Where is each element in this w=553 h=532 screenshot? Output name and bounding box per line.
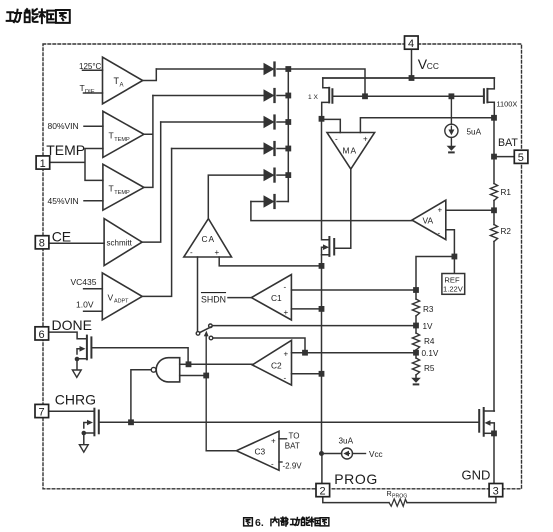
pin 3 box — [489, 484, 503, 498]
svg-text:T: T — [109, 131, 114, 141]
svg-text:8: 8 — [39, 238, 45, 250]
svg-text:PROG: PROG — [392, 494, 407, 500]
node 0.1V tap junction — [413, 350, 419, 356]
wire C1- input to REF node — [291, 289, 416, 291]
wire CA- input down to switch — [197, 257, 199, 331]
wire TTEMP1 input 80%VIN — [84, 125, 103, 127]
current source I1 5uA — [445, 96, 458, 145]
transistor Q2 1100X — [484, 78, 494, 115]
node mirror drain-gate junction — [362, 93, 368, 99]
svg-text:C3: C3 — [255, 447, 266, 457]
pin 6 box — [35, 327, 49, 341]
node NAND in2 junction — [203, 373, 209, 379]
wire CA output to diode row5 — [208, 175, 263, 219]
svg-text:BAT: BAT — [498, 137, 518, 149]
op-amp MA — [327, 133, 375, 170]
wire VA- input to REF node — [446, 230, 455, 254]
pin 1 box — [36, 156, 50, 170]
schmitt trigger — [104, 219, 142, 266]
diode D3 — [161, 121, 264, 123]
resistor R2 — [490, 225, 497, 242]
wire NAND output to gate bus — [131, 370, 151, 420]
svg-text:VA: VA — [423, 216, 434, 226]
svg-text:-: - — [284, 283, 287, 292]
svg-text:T: T — [80, 83, 85, 93]
wire REF node to R3 top — [416, 257, 454, 291]
wire C3- stub — [279, 461, 282, 463]
svg-text:CE: CE — [52, 229, 71, 245]
svg-text:DONE: DONE — [52, 317, 92, 333]
wire C2 output to NAND in1 — [189, 363, 253, 365]
wire switch contact1 to 1V tap — [212, 325, 416, 327]
svg-text:-: - — [271, 460, 274, 469]
svg-text:R5: R5 — [424, 364, 435, 373]
svg-text:SHDN: SHDN — [201, 295, 226, 305]
node Q2 drain junction — [491, 115, 497, 121]
svg-text:-: - — [284, 374, 287, 383]
wire PROG to pin2 — [321, 454, 323, 484]
wire PROG sense line — [321, 266, 323, 454]
wire mirror gate line — [365, 95, 484, 97]
wire VA+ input to R1R2 tap — [446, 209, 494, 211]
title 功能框图 — [7, 9, 70, 23]
node REF node junction — [452, 254, 458, 260]
wire M4 source to GND pin — [493, 433, 495, 483]
node PROG dot — [319, 451, 324, 456]
wire MA inverting input from Q1 gate node — [322, 119, 341, 132]
svg-text:schmitt: schmitt — [107, 239, 133, 248]
wire BAT rail down — [493, 118, 495, 184]
wire VCC rail — [323, 77, 495, 79]
svg-text:7: 7 — [39, 406, 45, 418]
wire RPROG to pin3 — [407, 497, 496, 502]
node CA+ / PROG junction — [319, 263, 325, 269]
svg-text:+: + — [284, 308, 289, 317]
svg-text:+: + — [438, 206, 443, 215]
op-amp VA — [412, 200, 446, 239]
diode D4 — [172, 148, 264, 150]
svg-text:2: 2 — [320, 486, 326, 498]
svg-text:1.22V: 1.22V — [443, 285, 464, 294]
svg-text:CHRG: CHRG — [55, 392, 96, 408]
transistor M1 (sense FET) — [322, 119, 335, 263]
node NAND in1 junction — [186, 361, 192, 367]
svg-text:R3: R3 — [423, 305, 434, 314]
resistor R5 — [415, 353, 417, 358]
svg-text:4: 4 — [408, 38, 414, 50]
node BAT junction — [491, 154, 497, 160]
svg-text:TEMP: TEMP — [46, 142, 85, 158]
pin 7 box — [35, 404, 49, 418]
svg-text:TEMP: TEMP — [114, 190, 130, 196]
wire VA output hook to D6 — [251, 202, 412, 221]
svg-text:R2: R2 — [501, 227, 512, 236]
current source I2 3uA — [322, 448, 366, 459]
resistor R3 — [415, 290, 417, 299]
svg-text:+: + — [284, 350, 289, 359]
dashed border of IC — [43, 44, 522, 489]
wire pin2 to RPROG — [323, 497, 389, 502]
svg-text:C2: C2 — [271, 361, 282, 371]
wire TTEMP2 input 45%VIN — [84, 200, 103, 202]
svg-text:125°C: 125°C — [79, 62, 102, 71]
wire TA input 125C — [83, 69, 103, 71]
wire VADPT input VC435 — [84, 288, 103, 290]
wire switch contact2 to C2+ node — [213, 338, 305, 350]
comparator TA — [103, 57, 143, 104]
svg-text:VC435: VC435 — [71, 277, 97, 287]
pin 5 box — [514, 150, 528, 164]
gate U1 NAND — [156, 358, 179, 382]
node C2- / PROG junction — [319, 371, 325, 377]
svg-text:DIE: DIE — [85, 89, 95, 95]
svg-text:REF: REF — [444, 275, 460, 284]
wire VCC pin lead — [411, 49, 413, 78]
wire CE pin to schmitt — [50, 242, 104, 244]
svg-text:-: - — [335, 135, 338, 144]
block REF 1.22V — [453, 260, 455, 274]
svg-text:1100X: 1100X — [497, 100, 518, 109]
wire DONE pin to M2 drain — [50, 332, 87, 339]
comparator C2 — [252, 340, 291, 385]
svg-text:BAT: BAT — [285, 441, 300, 450]
node R3 top junction — [413, 287, 419, 293]
diode D2 — [153, 95, 264, 97]
svg-text:-: - — [190, 248, 193, 257]
transistor M3 (CHRG open-drain) — [82, 409, 129, 445]
svg-text:5: 5 — [518, 152, 524, 164]
ground below 5uA — [447, 146, 457, 153]
svg-text:-: - — [438, 229, 441, 238]
pin 4 box — [405, 36, 419, 50]
svg-text:R1: R1 — [501, 188, 512, 197]
node C2+ junction — [302, 350, 308, 356]
svg-text:45%VIN: 45%VIN — [48, 196, 79, 206]
wire C3+ stub TO BAT — [279, 438, 287, 440]
svg-text:CA: CA — [202, 234, 216, 244]
svg-text:+: + — [215, 248, 220, 257]
diode D6 — [251, 201, 264, 203]
node Q1 gate junction — [319, 116, 325, 122]
wire schmitt output to D3 row — [142, 122, 161, 242]
svg-text:3: 3 — [493, 486, 499, 498]
svg-text:TO: TO — [289, 431, 300, 440]
ground below M2 — [72, 370, 81, 377]
node 1V tap junction — [413, 323, 419, 329]
wire C3 output up to switch — [206, 450, 236, 452]
svg-text:ADPT: ADPT — [114, 299, 129, 305]
svg-text:R4: R4 — [424, 337, 435, 346]
svg-text:MA: MA — [343, 145, 358, 155]
svg-text:+: + — [271, 437, 276, 446]
switch S1 — [196, 324, 213, 451]
resistor RPROG — [389, 499, 407, 506]
svg-text:V: V — [108, 293, 114, 303]
ground below M3 — [79, 445, 88, 452]
svg-text:6: 6 — [39, 329, 45, 341]
svg-text:-2.9V: -2.9V — [283, 461, 303, 470]
wire C1+ input to PROG line — [291, 308, 318, 310]
wire C2+ input to 0.1V tap — [292, 352, 417, 354]
wire CA+ input to PROG line — [219, 257, 318, 266]
transistor M2 (DONE open-drain) — [75, 336, 188, 370]
caption 图6. 内部功能框图 — [244, 517, 329, 526]
node M4 source junction — [491, 431, 497, 437]
comparator TTEMP2 — [103, 164, 144, 210]
comparator C3 — [236, 431, 279, 470]
svg-text:0.1V: 0.1V — [422, 349, 439, 358]
wire TA output to D1 row — [143, 69, 157, 81]
wire CHRG pin to M3 drain — [50, 410, 94, 412]
wire VADPT output to D4 row — [142, 149, 171, 297]
svg-text:1 X: 1 X — [308, 94, 318, 101]
wire C2- input to PROG line — [292, 373, 319, 375]
svg-text:T: T — [109, 184, 114, 194]
svg-text:CC: CC — [427, 61, 439, 71]
wire NAND input1 — [180, 363, 189, 365]
transistor M4 (power FET) — [479, 408, 494, 436]
diode D1 — [156, 68, 263, 70]
wire VADPT input 1.0V — [84, 310, 103, 312]
wire TEMP pin bracket — [50, 149, 103, 181]
svg-text:R: R — [387, 489, 392, 498]
svg-text:3uA: 3uA — [339, 437, 354, 446]
node R1R2 tap junction — [491, 207, 497, 213]
wire D1 row to mirror node — [291, 69, 365, 94]
svg-text:1V: 1V — [423, 322, 434, 331]
node gate-line / 5uA junction — [449, 93, 455, 99]
node NAND out junction — [128, 419, 134, 425]
wire diode cathode bus — [287, 69, 289, 202]
svg-text:1.0V: 1.0V — [76, 300, 94, 310]
node C1+ / PROG junction — [319, 306, 325, 312]
comparator VADPT — [102, 273, 142, 320]
node VCC junction — [409, 75, 415, 81]
wire MA non-inverting input to Q2 drain — [360, 118, 494, 133]
wire TA input TDIE — [84, 92, 103, 94]
pin 2 box — [316, 484, 330, 498]
wire NAND input2 — [180, 375, 207, 377]
wire C1 output SHDN — [228, 297, 251, 299]
svg-text:80%VIN: 80%VIN — [48, 121, 79, 131]
svg-text:C1: C1 — [271, 293, 282, 303]
svg-text:A: A — [120, 83, 124, 89]
svg-text:6.: 6. — [255, 517, 264, 529]
svg-text:PROG: PROG — [334, 471, 378, 487]
svg-text:TEMP: TEMP — [114, 137, 130, 143]
svg-text:5uA: 5uA — [467, 128, 482, 137]
ground below R5 — [411, 378, 421, 385]
svg-text:1: 1 — [40, 158, 46, 170]
resistor R4 — [415, 326, 417, 334]
wire BAT to pin5 — [494, 156, 514, 158]
diode D5 — [264, 169, 275, 182]
pin 8 box — [35, 236, 49, 250]
wire TTEMP outputs merge to D2 row — [144, 96, 153, 188]
comparator TTEMP1 — [103, 111, 144, 157]
resistor R1 — [490, 184, 497, 201]
comparator C1 — [251, 275, 291, 321]
comparator CA — [184, 219, 232, 257]
svg-text:Vcc: Vcc — [369, 450, 383, 459]
wire MA output down to M1 gate — [335, 169, 351, 248]
svg-text:GND: GND — [462, 468, 491, 483]
wire main gate bus to power FET — [131, 421, 478, 423]
svg-text:+: + — [363, 135, 368, 144]
transistor Q1 1X — [322, 78, 362, 116]
